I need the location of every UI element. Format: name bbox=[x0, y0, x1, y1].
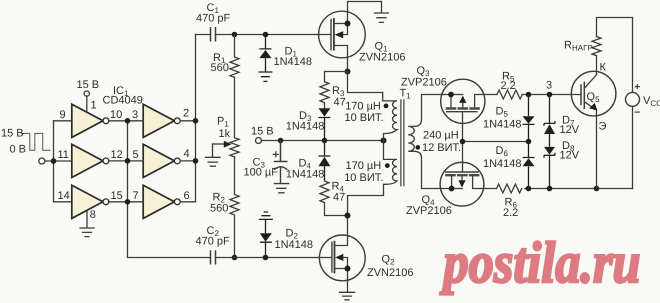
svg-text:postila.ru: postila.ru bbox=[439, 230, 640, 295]
inverter IC1 gate pin3-2 bbox=[143, 104, 174, 137]
diode D5 bbox=[528, 95, 530, 117]
potentiometer P1 wiper arrow bbox=[213, 143, 225, 145]
node pin2 bbox=[193, 118, 199, 124]
transistor Q4 ZVP2106 bbox=[440, 142, 496, 207]
resistor R5 bbox=[497, 90, 522, 99]
node gates junction bbox=[460, 139, 466, 145]
svg-text:ZVP2106: ZVP2106 bbox=[401, 76, 447, 88]
wire pin12 to pin5 bbox=[109, 160, 143, 162]
node input junction bbox=[51, 158, 57, 164]
transistor Q3 ZVP2106 bbox=[441, 79, 497, 141]
wire input bus vertical bbox=[53, 121, 55, 202]
label minus VCC bbox=[635, 111, 639, 113]
wire feedback bus1 to C2 bbox=[128, 121, 211, 258]
svg-text:3: 3 bbox=[546, 80, 552, 92]
svg-text:47: 47 bbox=[334, 97, 346, 109]
bubble output pin2 bbox=[174, 118, 180, 124]
diode D1 bbox=[259, 35, 271, 49]
label plus C3 bbox=[273, 152, 278, 157]
inverter IC1 gate pin5-4 bbox=[143, 144, 174, 177]
svg-text:47: 47 bbox=[333, 192, 345, 204]
svg-text:10 ВИТ.: 10 ВИТ. bbox=[345, 112, 384, 124]
input square wave symbol bbox=[21, 133, 50, 150]
wire pin6 to bus2 bbox=[180, 201, 195, 203]
svg-text:1: 1 bbox=[91, 100, 97, 112]
svg-text:9: 9 bbox=[60, 109, 66, 121]
capacitor C3 bbox=[275, 141, 287, 162]
wire 15V rail bbox=[262, 140, 384, 142]
node R1 top bbox=[232, 32, 238, 38]
transformer T1 bbox=[348, 72, 442, 216]
svg-text:470 pF: 470 pF bbox=[196, 13, 231, 25]
svg-text:14: 14 bbox=[58, 190, 70, 202]
svg-text:10 ВИТ.: 10 ВИТ. bbox=[344, 172, 383, 184]
svg-text:1N4148: 1N4148 bbox=[286, 121, 325, 133]
transistor Q2 ZVN2106 bbox=[319, 213, 365, 300]
svg-text:100 µF: 100 µF bbox=[244, 167, 279, 179]
wire rail 3 bbox=[522, 94, 581, 96]
svg-text:4: 4 bbox=[184, 148, 190, 160]
svg-text:470 pF: 470 pF bbox=[196, 236, 231, 248]
node bottom D6 bbox=[526, 186, 532, 192]
node C3 top bbox=[278, 138, 284, 144]
transistor Q5 IGBT bbox=[571, 18, 639, 189]
watermark postila.ru bbox=[439, 230, 640, 295]
T1 phase dot primary 2 bbox=[385, 163, 390, 168]
pin 1 supply circle bbox=[84, 91, 89, 96]
wire pin10 to pin3 bbox=[109, 120, 143, 122]
svg-text:7: 7 bbox=[133, 190, 139, 202]
node D3 D4 rail bbox=[322, 138, 328, 144]
svg-text:1N4148: 1N4148 bbox=[275, 239, 314, 251]
svg-text:12: 12 bbox=[111, 149, 123, 161]
svg-text:12V: 12V bbox=[560, 150, 580, 162]
node pin4 bbox=[193, 158, 199, 164]
ground pin8 bbox=[80, 211, 94, 237]
T1 core bbox=[401, 100, 404, 186]
wire bottom rail bbox=[497, 184, 633, 193]
inverter IC1 gate pin9-10 bbox=[72, 104, 103, 137]
wire pin15 to pin7 bbox=[109, 201, 143, 203]
diode D6 bbox=[523, 142, 535, 158]
wire C1 to Q1 gate bbox=[216, 34, 332, 36]
svg-text:1N4148: 1N4148 bbox=[274, 56, 313, 68]
svg-text:10: 10 bbox=[110, 109, 122, 121]
resistor R2 bbox=[230, 157, 239, 258]
svg-text:12 ВИТ.: 12 ВИТ. bbox=[422, 142, 461, 154]
svg-text:170 µH: 170 µH bbox=[345, 100, 381, 112]
wire bus2 to C1 bbox=[196, 34, 211, 36]
potentiometer P1 bbox=[230, 77, 239, 156]
bubble output pin6 bbox=[174, 199, 180, 205]
svg-text:8: 8 bbox=[90, 209, 96, 221]
node Q1 source junction bbox=[345, 69, 351, 75]
svg-text:560: 560 bbox=[210, 203, 228, 215]
T1 phase dot secondary bbox=[416, 145, 421, 150]
node bottom Q5 emitter bbox=[594, 186, 600, 192]
wire C2 to Q2 gate bbox=[216, 257, 332, 259]
resistor R1 bbox=[230, 35, 239, 78]
zener D7 12V bbox=[544, 95, 555, 126]
svg-text:2.2: 2.2 bbox=[501, 80, 516, 92]
input terminal circle bbox=[39, 158, 45, 164]
ground inverted above D2 bbox=[259, 212, 273, 219]
wire stub to pin 9 bbox=[54, 120, 72, 122]
capacitor C2 bbox=[211, 251, 216, 264]
resistor RLOAD bbox=[592, 37, 601, 56]
diode D3 bbox=[318, 108, 330, 116]
wire gates line Q3 Q4 to D5 bbox=[463, 141, 529, 143]
bubble output pin15 bbox=[103, 199, 109, 205]
diode D4 bbox=[318, 141, 330, 157]
source VCC bbox=[626, 92, 640, 106]
wire top rail bbox=[597, 18, 633, 93]
node D5 D6 mid bbox=[526, 139, 532, 145]
node rail3 D7 bbox=[547, 92, 553, 98]
svg-text:6: 6 bbox=[184, 190, 190, 202]
svg-text:CD4049: CD4049 bbox=[103, 95, 143, 107]
node pin12-5 bbox=[125, 158, 131, 164]
wire Q1 source to R3 bbox=[325, 72, 348, 82]
svg-text:Э: Э bbox=[599, 121, 607, 133]
svg-text:2: 2 bbox=[183, 108, 189, 120]
inverter IC1 gate pin7-6 bbox=[143, 185, 174, 218]
wire input to inverters bbox=[45, 160, 72, 162]
node T1 center tap bbox=[381, 138, 387, 144]
resistor R3 bbox=[320, 82, 329, 109]
svg-text:1N4148: 1N4148 bbox=[483, 119, 522, 131]
svg-text:560: 560 bbox=[211, 62, 229, 74]
resistor R4 bbox=[320, 181, 348, 216]
svg-text:1N4148: 1N4148 bbox=[286, 169, 325, 181]
ground D1 bbox=[258, 72, 272, 81]
node D1 top bbox=[263, 32, 269, 38]
zener D8 12V bbox=[544, 147, 555, 155]
wire output bus2 C1 feed bbox=[195, 35, 197, 202]
svg-text:1N4148: 1N4148 bbox=[483, 158, 522, 170]
bubble output pin4 bbox=[174, 158, 180, 164]
node pin15-7 bbox=[125, 199, 131, 205]
transistor Q1 ZVN2106 bbox=[319, 2, 389, 109]
svg-text:2.2: 2.2 bbox=[503, 207, 518, 219]
ground Q1 drain rail bbox=[374, 2, 388, 23]
svg-text:11: 11 bbox=[58, 149, 69, 161]
svg-text:0 В: 0 В bbox=[10, 144, 27, 156]
ground Q2 source bbox=[340, 281, 355, 300]
svg-text:12V: 12V bbox=[560, 124, 580, 136]
node rail3 D5 bbox=[526, 92, 532, 98]
svg-text:240 µH: 240 µH bbox=[423, 129, 459, 141]
node bottom D8 bbox=[547, 186, 553, 192]
node R2 bottom bbox=[232, 255, 238, 261]
T1 primary winding 1 bbox=[348, 72, 398, 141]
svg-text:К: К bbox=[600, 62, 607, 74]
capacitor C1 bbox=[211, 28, 216, 41]
wire pin2 to bus2 bbox=[180, 120, 195, 122]
bubble output pin12 bbox=[103, 158, 109, 164]
svg-text:ZVP2106: ZVP2106 bbox=[406, 205, 452, 217]
svg-text:ZVN2106: ZVN2106 bbox=[367, 267, 413, 279]
svg-text:1k: 1k bbox=[219, 128, 231, 140]
svg-text:15 В: 15 В bbox=[77, 79, 100, 91]
inverter IC1 gate pin14-15 bbox=[72, 185, 103, 218]
svg-text:15: 15 bbox=[111, 190, 123, 202]
bubble output pin10 bbox=[103, 118, 109, 124]
T1 primary winding 2 bbox=[348, 141, 397, 216]
svg-text:5: 5 bbox=[133, 149, 139, 161]
svg-text:3: 3 bbox=[132, 109, 138, 121]
wire stub to pin 14 bbox=[54, 201, 72, 203]
diode D2 bbox=[265, 219, 267, 233]
label plus VCC bbox=[635, 85, 639, 89]
wire pin4 to bus2 bbox=[180, 160, 195, 162]
svg-text:15 В: 15 В bbox=[1, 128, 24, 140]
ground P1 wiper bbox=[206, 144, 220, 166]
node pin10-3 bbox=[125, 118, 131, 124]
T1 secondary winding bbox=[408, 95, 442, 189]
15V supply terminal bbox=[256, 138, 262, 144]
svg-text:170 µH: 170 µH bbox=[346, 160, 382, 172]
inverter IC1 gate pin11-12 bbox=[72, 144, 103, 177]
wire pin1 stem bbox=[86, 96, 88, 112]
svg-text:15 В: 15 В bbox=[251, 126, 274, 138]
svg-text:ZVN2106: ZVN2106 bbox=[359, 52, 405, 64]
T1 phase dot primary 1 bbox=[384, 104, 389, 109]
node D2 bottom bbox=[263, 255, 269, 261]
